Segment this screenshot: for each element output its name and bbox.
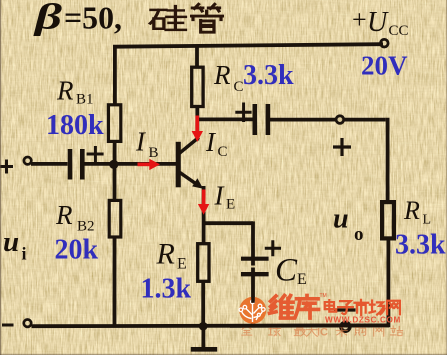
label title 管 (192, 4, 223, 32)
capacitor C1 right plate (80, 149, 85, 180)
watermark 子 (338, 301, 353, 314)
watermark 库 (295, 295, 319, 318)
wire CE lead over logo top (251, 297, 255, 303)
minus sign input port (2, 324, 14, 327)
wire emitter branch to CE (204, 221, 253, 225)
terminal circle output top (336, 116, 344, 124)
terminal circle input top (24, 157, 31, 164)
watermark faded row 全球最大IC采购网站 (242, 326, 403, 336)
capacitor C2 left plate (253, 104, 258, 135)
current arrow IB (138, 159, 161, 170)
resistor RL body (382, 202, 394, 238)
resistor RB2 body (109, 200, 121, 237)
svg-text:U: U (367, 7, 389, 38)
wire CE top lead (251, 221, 255, 265)
capacitor C1 left plate (68, 149, 73, 180)
wire bottom rail overlay across watermark (230, 324, 389, 328)
svg-text:E: E (226, 197, 235, 213)
wire RB1 top lead (113, 46, 117, 107)
svg-text:B: B (149, 145, 159, 161)
svg-text:TM: TM (320, 293, 327, 299)
transistor Q1 collector stroke (180, 137, 199, 153)
wire output node to RL corner (344, 118, 386, 122)
plus sign input port (0, 160, 13, 174)
wire RE bottom lead (201, 282, 205, 327)
resistor RB1 body (108, 105, 120, 142)
svg-text:o: o (354, 224, 364, 245)
svg-text:C: C (275, 253, 298, 289)
capacitor C2 right plate (266, 104, 271, 135)
wire CE bottom lead (251, 268, 255, 328)
watermark 场 (370, 300, 385, 314)
plus sign output port (333, 138, 351, 156)
label title 硅 (150, 6, 185, 30)
wire RL top lead (386, 118, 390, 201)
current arrow IE (198, 190, 209, 215)
wire C1 to base junction (84, 162, 176, 166)
transistor Q1 base bar (176, 142, 181, 188)
capacitor CE top plate (241, 257, 269, 261)
svg-text:u: u (333, 204, 349, 235)
watermark logo circle (239, 297, 266, 324)
capacitor CE bottom plate (241, 272, 269, 276)
terminal circle input bottom (24, 320, 31, 327)
transistor Q1 emitter arrowhead (192, 178, 203, 189)
svg-text:+: + (352, 5, 367, 34)
wire bottom rail (32, 323, 390, 328)
plus sign C2 polarity (235, 103, 251, 123)
svg-text:3.3k: 3.3k (395, 230, 446, 261)
watermark 电 (325, 300, 337, 312)
svg-text:R: R (56, 76, 74, 106)
wire ground stub (201, 326, 205, 348)
svg-text:L: L (423, 213, 432, 228)
wire input to C1 (31, 162, 68, 166)
wire RB2 bottom lead (113, 238, 117, 327)
svg-text:20V: 20V (361, 51, 408, 81)
wire C2 to output node (270, 118, 336, 122)
svg-text:E: E (297, 271, 307, 288)
resistor RC body (192, 67, 203, 106)
svg-text:=50,: =50, (64, 0, 122, 36)
edge shadow left (0, 0, 1, 355)
svg-text:180k: 180k (46, 110, 104, 141)
svg-text:E: E (177, 256, 187, 273)
wire emitter vertical (202, 186, 206, 243)
terminal circle VCC (381, 39, 389, 47)
edge shadow bottom (0, 354, 447, 355)
junction dot emitter-ground node (199, 322, 208, 331)
label CE (275, 253, 307, 289)
svg-text:3.3k: 3.3k (243, 60, 294, 91)
wire collector to C2 (197, 118, 252, 122)
svg-text:R: R (213, 60, 231, 90)
watermark 维 (270, 295, 294, 318)
svg-text:IC: IC (317, 327, 328, 339)
wire top rail VCC (113, 44, 383, 47)
svg-text:R: R (403, 196, 420, 225)
svg-text:B2: B2 (77, 219, 95, 235)
svg-text:u: u (3, 226, 19, 258)
svg-text:B1: B1 (76, 92, 94, 108)
wire RC bottom lead to collector (195, 106, 199, 141)
terminal circle output bottom (341, 322, 350, 331)
resistor RE body (198, 244, 209, 282)
svg-text:WWW.DZSC.COM: WWW.DZSC.COM (325, 316, 401, 325)
plus sign CE polarity (265, 240, 281, 256)
junction dot base node (109, 160, 118, 169)
svg-text:β: β (32, 0, 63, 37)
watermark 网 (387, 301, 400, 314)
svg-text:R: R (156, 238, 175, 271)
plus sign C1 polarity (87, 146, 104, 162)
svg-text:1.3k: 1.3k (141, 274, 192, 305)
ground bar (191, 347, 217, 352)
svg-text:C: C (234, 79, 244, 95)
transistor Q1 emitter stroke (180, 172, 198, 185)
wire RB2 top lead (113, 164, 117, 200)
svg-text:i: i (22, 244, 27, 264)
current arrow IC (192, 116, 203, 142)
svg-text:CC: CC (389, 23, 409, 39)
watermark 市 (354, 300, 368, 315)
svg-text:C: C (218, 144, 228, 160)
edge shadow right (446, 0, 447, 355)
svg-text:20k: 20k (55, 235, 99, 266)
minus sign output port (334, 308, 356, 311)
wire RL bottom lead (386, 240, 390, 327)
wire RC top lead (195, 46, 199, 68)
svg-text:R: R (55, 200, 73, 230)
wire RB1 bottom lead (113, 142, 117, 166)
